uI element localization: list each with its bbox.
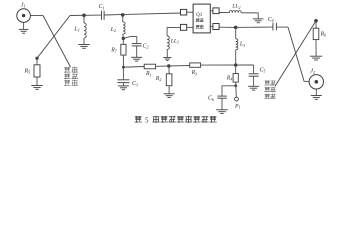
label 连接网络电路 (left) (64, 67, 78, 86)
wire R7 to bus corner (122, 55, 124, 67)
ground below R5 (31, 86, 43, 90)
connector J1 (input port) (17, 9, 31, 23)
svg-text:C6: C6 (208, 96, 214, 102)
svg-text:L3: L3 (239, 42, 245, 48)
capacitor C4 (273, 23, 277, 31)
svg-text:R7: R7 (110, 47, 118, 53)
wire C3 to ground (122, 83, 124, 86)
resistor R2 (166, 74, 172, 86)
pad P-out-bottom (module right lower pin) (213, 24, 219, 30)
pad P-out-top (module right upper pin) (213, 8, 219, 14)
wire L3 stem (235, 27, 237, 38)
wire into J2 (304, 80, 309, 82)
wire lower-right pin to L3 node (219, 26, 236, 28)
svg-text:LL1: LL1 (170, 38, 179, 44)
wire L1 to ground (83, 38, 85, 44)
node below L2 (122, 37, 125, 40)
resistor R1 (144, 64, 155, 69)
svg-text:C1: C1 (99, 4, 105, 10)
ground below L1 (78, 45, 90, 49)
label 连接网络电路 (right) (265, 81, 276, 99)
ground below R2 (164, 94, 175, 98)
wire C6 to ground (221, 98, 223, 109)
ground below LL2 (253, 19, 264, 23)
connector J2 (output port) (309, 75, 323, 89)
resistor R3 (190, 63, 201, 67)
capacitor C3 (117, 80, 129, 83)
ground below R6 (310, 56, 322, 60)
ground below C6 (216, 110, 228, 114)
wire bus segment 1 (123, 66, 144, 69)
wire LL2 to ground bend (241, 13, 258, 19)
capacitor C5 stem (253, 65, 255, 74)
node below R4 (234, 84, 237, 87)
inductor L3 (236, 39, 238, 50)
resistor R5 (34, 65, 40, 77)
wire stub left upper pin (187, 11, 193, 13)
node bus at R2 (167, 64, 170, 67)
wire lower-left pin to LL1 (167, 27, 180, 36)
wire R5 to ground (36, 77, 38, 85)
node bus left corner (122, 66, 125, 69)
wire to P1 (235, 86, 238, 97)
wire J1 to ground (23, 22, 25, 29)
wire diagonal from node up-right to top rail (crossover) (37, 16, 70, 59)
resistor R6 (313, 28, 319, 39)
ground below C5 (248, 86, 259, 90)
inductor L1 (84, 23, 86, 38)
wire J2 to ground (315, 89, 317, 95)
resistor R7 (121, 44, 126, 55)
wire node to R5 (36, 59, 38, 64)
wire C2 to ground (136, 46, 138, 57)
wire R6 stem (315, 21, 317, 28)
wire R2 stem (168, 66, 170, 74)
wire stub right upper pin (210, 10, 213, 12)
svg-text:C3: C3 (132, 81, 138, 87)
wire L1 stem (83, 15, 85, 23)
wire diagonal to J2 (crossover) (288, 27, 304, 81)
wire R4 stem (235, 65, 237, 73)
svg-text:LL2: LL2 (231, 4, 240, 10)
label 模块 inside module (196, 25, 204, 29)
svg-text:C5: C5 (260, 67, 266, 73)
test point P1 (235, 97, 239, 101)
wire LL1 to ground (166, 49, 168, 57)
pad P-in-top (module left upper pin) (181, 9, 187, 15)
pad P-in-bottom (module left lower pin) (181, 24, 187, 30)
wire C4 to right crossover (277, 26, 288, 28)
wire bus segment 3 (201, 64, 254, 66)
svg-text:R3: R3 (191, 70, 198, 76)
ground below LL1 (163, 58, 171, 61)
capacitor C6 (217, 96, 226, 98)
wire L2 stem (122, 15, 124, 22)
svg-text:Q1: Q1 (196, 12, 203, 18)
node at L2 chain top (121, 13, 125, 17)
wire R2 to ground (168, 86, 170, 94)
ground below J1 (19, 29, 29, 33)
svg-text:C4: C4 (268, 17, 274, 23)
inductor LL2 (229, 10, 241, 12)
wire branch to C2 (123, 37, 137, 44)
label 放大 inside module (196, 19, 204, 22)
capacitor C5 (249, 74, 259, 76)
capacitor C1 (102, 11, 105, 20)
svg-text:L2: L2 (110, 27, 116, 33)
wire L3 to bus (235, 50, 237, 65)
node R6 top (314, 19, 318, 23)
svg-text:5: 5 (145, 117, 149, 125)
ground below C3 (118, 86, 129, 90)
svg-text:R4: R4 (226, 75, 233, 81)
svg-text:P1: P1 (234, 103, 240, 109)
caption 图5 放大器单元原理图 (135, 116, 217, 125)
wire diagonal from J1 down-right (crossover) (43, 16, 71, 68)
inductor LL1 (167, 36, 169, 50)
svg-text:R2: R2 (155, 76, 162, 82)
ground below J2 (311, 96, 322, 100)
wire C5 to ground (253, 76, 255, 86)
capacitor C2 (132, 44, 142, 46)
wire from J1 right (30, 15, 43, 17)
ground below C2 (131, 57, 142, 61)
capacitor C3 stem (122, 67, 124, 79)
node at R5 top (35, 57, 38, 60)
amplifier module U1 box (193, 4, 210, 33)
wire junction to R7 (122, 38, 124, 44)
svg-text:R1: R1 (145, 71, 152, 77)
node L3 top (234, 26, 238, 30)
wire R4 to P1 node (235, 82, 237, 86)
wire diagonal from text to R6 node (crossover) (275, 21, 316, 87)
svg-text:R6: R6 (320, 31, 327, 37)
node bus at R4 (234, 63, 237, 66)
wire L2 to junction (122, 34, 124, 38)
wire branch to C6 (222, 86, 236, 96)
resistor R4 (233, 73, 238, 82)
wire stub left lower pin (187, 26, 193, 28)
wire R6 to ground (315, 40, 317, 56)
inductor L2 (123, 22, 125, 34)
node L1 junction (82, 14, 86, 18)
wire L3 node to C4 (236, 26, 273, 28)
wire stub right lower pin (210, 26, 213, 28)
wire bus segment 2 (156, 65, 190, 68)
wire upper-right pin to LL2 (219, 12, 229, 14)
wire top rail right segment (104, 13, 181, 15)
wire top rail left segment (70, 14, 101, 16)
svg-text:C2: C2 (143, 43, 149, 49)
